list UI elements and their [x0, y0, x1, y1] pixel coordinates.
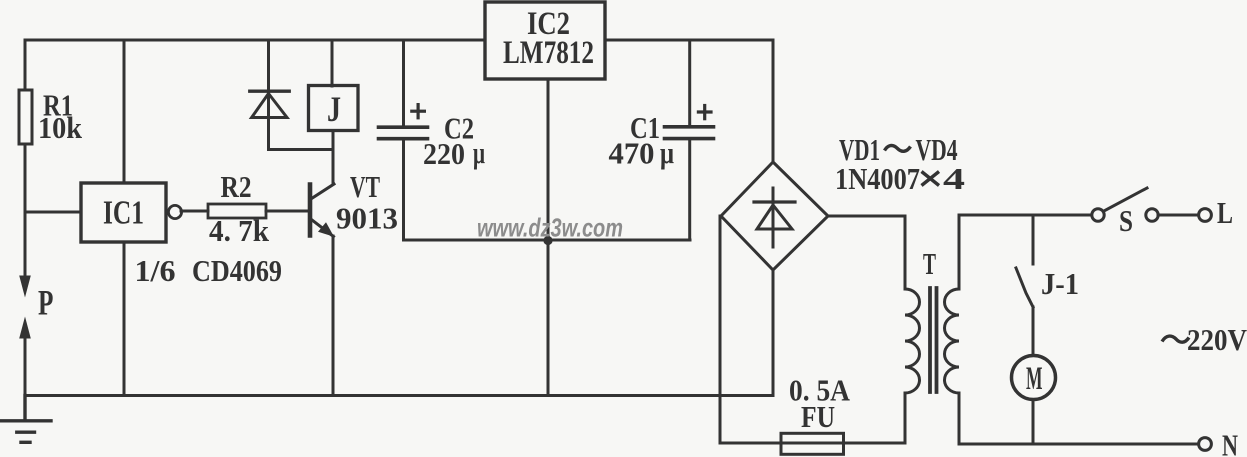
svg-text:J: J [327, 89, 341, 129]
svg-text:1N4007: 1N4007 [835, 161, 920, 196]
transformer T primary [905, 216, 920, 443]
svg-text:220: 220 [423, 136, 465, 171]
wire top rail left [25, 39, 485, 42]
wire right loop top [959, 214, 1092, 217]
svg-text:220V: 220V [1187, 322, 1247, 357]
ground rail [25, 394, 773, 397]
resistor R2 [208, 204, 266, 218]
svg-text:CD4069: CD4069 [192, 253, 282, 288]
svg-text:L: L [1217, 195, 1233, 230]
wire IC1 power bottom [123, 242, 126, 396]
svg-text:www.dz3w.com: www.dz3w.com [477, 213, 623, 243]
switch S [1092, 188, 1198, 221]
svg-text:N: N [1222, 428, 1238, 457]
relay contact J-1 [1016, 215, 1033, 357]
svg-text:S: S [1119, 203, 1133, 238]
svg-text:R2: R2 [221, 169, 252, 204]
svg-text:IC1: IC1 [103, 195, 144, 232]
node P break arrows [19, 276, 31, 396]
svg-text:4. 7k: 4. 7k [209, 213, 270, 248]
svg-text:J-1: J-1 [1041, 266, 1079, 301]
transformer T secondary [945, 215, 960, 444]
resistor R1 [19, 90, 32, 144]
wire bridge top [772, 40, 775, 162]
capacitor C1 [665, 40, 714, 240]
transistor Q1 VT 9013 [310, 184, 334, 237]
wire bridge left AC down [719, 216, 722, 443]
ground [1, 396, 51, 443]
node terminal L [1199, 209, 1212, 222]
diode VD flyback [250, 40, 333, 150]
wire emitter vertical [332, 236, 335, 396]
wire left vertical upper [24, 40, 27, 90]
wire IC1 power top [123, 40, 126, 183]
transformer core [930, 288, 937, 392]
node IC1 output bubble [168, 205, 181, 218]
wire collector vertical [332, 131, 335, 183]
wire left vertical mid [24, 144, 27, 277]
node junction dot [543, 236, 552, 245]
svg-text:μ: μ [473, 135, 485, 170]
node terminal N [1199, 438, 1212, 451]
bridge rectifier VD1-VD4 [721, 162, 828, 270]
motor M [1012, 356, 1056, 400]
svg-text:LM7812: LM7812 [503, 35, 594, 71]
svg-text:T: T [923, 246, 936, 281]
wire IC1 input [25, 211, 81, 214]
svg-text:9013: 9013 [336, 201, 398, 236]
svg-text:VT: VT [350, 169, 380, 204]
svg-text:4: 4 [943, 161, 965, 196]
wire bridge right to transformer [828, 215, 905, 218]
svg-text:10k: 10k [38, 110, 83, 145]
wire IC2 ground pin [547, 79, 550, 396]
svg-text:FU: FU [801, 399, 835, 434]
wire bridge bottom to ground rail [772, 270, 775, 396]
wire motor to bottom [1032, 400, 1035, 445]
svg-text:P: P [38, 283, 53, 323]
regulator IC2 LM7812 box [485, 2, 605, 79]
svg-text:M: M [1026, 361, 1043, 397]
wire R2 to base [266, 210, 308, 213]
fuse FU [781, 433, 844, 454]
wire top rail right [605, 39, 773, 42]
wire right loop bottom [959, 443, 1198, 446]
label ~220V [1162, 336, 1189, 342]
svg-text:470: 470 [609, 136, 655, 171]
svg-text:μ: μ [660, 135, 674, 170]
inverter IC1 box [81, 183, 166, 242]
wire mid rail [404, 239, 691, 242]
wire fuse rail [720, 442, 905, 445]
relay coil J [309, 40, 359, 131]
capacitor C2 [379, 40, 428, 240]
wire bubble to R2 [181, 210, 208, 213]
svg-text:1/6: 1/6 [135, 253, 176, 288]
